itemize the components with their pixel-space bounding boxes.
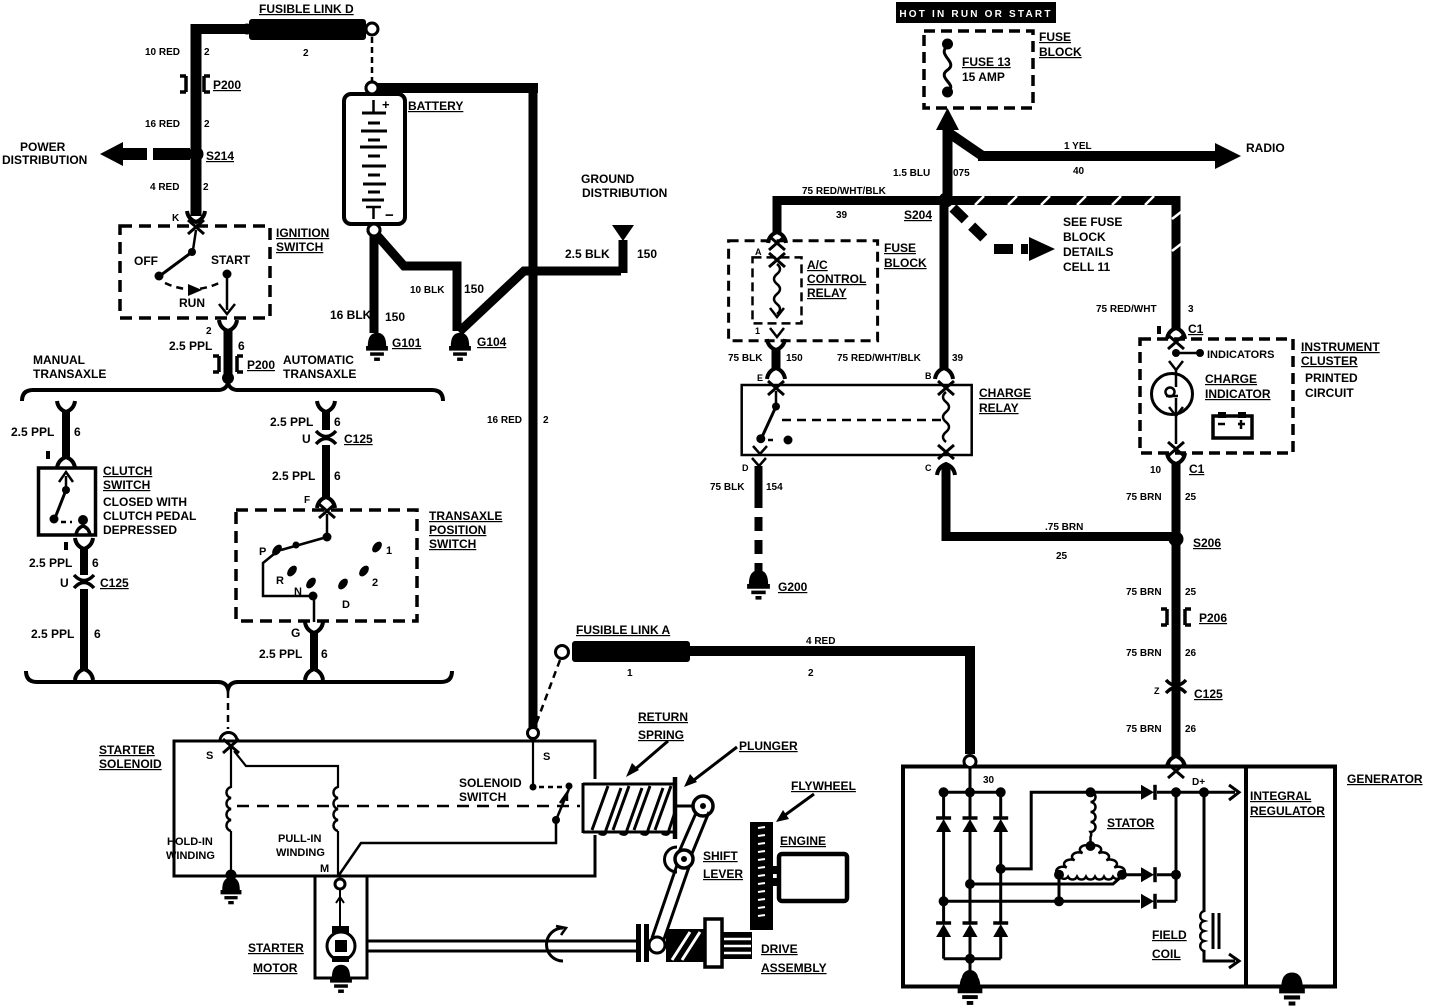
svg-text:COIL: COIL	[1152, 947, 1181, 961]
svg-text:P206: P206	[1199, 611, 1227, 625]
shift lever lower arm	[652, 865, 677, 938]
svg-text:FUSE: FUSE	[884, 241, 916, 255]
battery terminal circles (top of wires)	[366, 82, 378, 94]
rectifier bottom bus	[942, 937, 945, 959]
svg-text:REGULATOR: REGULATOR	[1250, 804, 1325, 818]
svg-text:BLOCK: BLOCK	[1039, 45, 1082, 59]
svg-text:30: 30	[983, 775, 995, 786]
svg-text:2: 2	[543, 415, 549, 426]
flywheel pointer	[781, 794, 814, 818]
plunger cylinder	[582, 783, 585, 833]
battery cells	[360, 100, 387, 219]
svg-text:A/C: A/C	[807, 258, 828, 272]
svg-text:CLUTCH: CLUTCH	[103, 464, 152, 478]
shift lever top pivot	[693, 796, 713, 816]
svg-text:LEVER: LEVER	[703, 867, 743, 881]
solenoid switch moving contact	[556, 789, 569, 820]
svg-text:2.5 BLK: 2.5 BLK	[565, 247, 610, 261]
svg-text:1 YEL: 1 YEL	[1064, 141, 1092, 152]
diode column drops	[942, 792, 945, 819]
svg-text:3: 3	[1188, 304, 1194, 315]
svg-text:6: 6	[238, 339, 245, 353]
svg-text:C1: C1	[1189, 462, 1205, 476]
svg-text:HOLD-IN: HOLD-IN	[167, 836, 213, 848]
svg-text:2.5 PPL: 2.5 PPL	[270, 415, 313, 429]
svg-text:CLUSTER: CLUSTER	[1301, 354, 1358, 368]
svg-text:4 RED: 4 RED	[150, 182, 179, 193]
dashed wire from brace to starter solenoid	[227, 691, 230, 729]
HOT IN RUN OR START banner	[896, 2, 1056, 23]
shift lever upper arm	[679, 813, 696, 852]
svg-text:150: 150	[464, 282, 484, 296]
ground distribution arrow	[612, 225, 634, 241]
svg-text:E: E	[757, 373, 763, 383]
svg-text:75 BRN: 75 BRN	[1126, 648, 1162, 659]
wire from P to N	[263, 554, 311, 596]
svg-text:6: 6	[94, 627, 101, 641]
svg-text:26: 26	[1185, 648, 1197, 659]
junction dot above transaxle brace	[222, 372, 234, 384]
svg-text:C: C	[925, 463, 932, 473]
svg-text:START: START	[211, 253, 251, 267]
svg-text:2: 2	[204, 47, 210, 58]
pull-in winding to M terminal	[337, 831, 339, 875]
terminal 30 circle	[964, 756, 976, 768]
svg-text:75 BRN: 75 BRN	[1126, 724, 1162, 735]
svg-text:ASSEMBLY: ASSEMBLY	[761, 961, 827, 975]
svg-text:1.5 BLU: 1.5 BLU	[893, 168, 930, 179]
wire A/C relay to charge relay E	[767, 339, 785, 350]
plunger pointer	[690, 747, 737, 783]
solenoid actuator dashed link	[237, 805, 580, 808]
return spring coils	[592, 786, 675, 834]
A/C control relay inner box	[753, 257, 802, 323]
svg-text:2.5 PPL: 2.5 PPL	[169, 339, 212, 353]
svg-text:25: 25	[1185, 492, 1197, 503]
svg-text:2: 2	[204, 119, 210, 130]
ignition switch box	[120, 226, 270, 318]
svg-text:OFF: OFF	[134, 254, 158, 268]
svg-text:WINDING: WINDING	[166, 850, 215, 862]
bottom brace	[26, 671, 452, 689]
svg-text:CLUTCH PEDAL: CLUTCH PEDAL	[103, 509, 196, 523]
svg-text:A: A	[755, 247, 762, 257]
svg-text:16 RED: 16 RED	[145, 119, 180, 130]
dashed travel arc with RUN arrow	[165, 282, 221, 289]
svg-text:2.5 PPL: 2.5 PPL	[31, 627, 74, 641]
ignition switch pivot	[193, 230, 196, 250]
svg-text:26: 26	[1185, 724, 1197, 735]
svg-text:K: K	[172, 213, 180, 224]
svg-text:S204: S204	[904, 208, 932, 222]
svg-text:CLOSED WITH: CLOSED WITH	[103, 495, 187, 509]
svg-text:IGNITION: IGNITION	[276, 226, 329, 240]
svg-text:M: M	[320, 863, 329, 875]
svg-text:RADIO: RADIO	[1246, 141, 1285, 155]
svg-text:POWER: POWER	[20, 140, 66, 154]
phase C route	[1058, 875, 1061, 902]
charge relay contact	[768, 381, 784, 395]
svg-text:D: D	[342, 599, 350, 611]
svg-text:MOTOR: MOTOR	[253, 961, 298, 975]
svg-text:16 BLK: 16 BLK	[330, 308, 372, 322]
svg-text:CELL 11: CELL 11	[1063, 260, 1110, 274]
starter motor enclosure	[315, 876, 367, 978]
ground wire 16 BLK from battery	[370, 235, 379, 333]
trio output line	[1175, 792, 1178, 901]
dashed wire from link A to solenoid S	[536, 660, 560, 724]
starter solenoid box	[174, 741, 595, 876]
svg-text:SWITCH: SWITCH	[459, 790, 506, 804]
radio feed branch	[946, 131, 984, 157]
svg-text:25: 25	[1056, 551, 1068, 562]
return spring pointer	[632, 741, 668, 772]
wire D to G200	[755, 466, 763, 494]
svg-text:CONTROL: CONTROL	[807, 272, 866, 286]
terminal tick above clutch switch	[46, 451, 50, 459]
wire 2.5 PPL below switch	[310, 632, 318, 670]
svg-text:2.5 PPL: 2.5 PPL	[29, 556, 72, 570]
field to regulator	[1204, 950, 1235, 961]
svg-text:TRANSAXLE: TRANSAXLE	[429, 509, 502, 523]
svg-text:MANUAL: MANUAL	[33, 353, 85, 367]
svg-text:39: 39	[952, 353, 964, 364]
svg-text:G: G	[291, 626, 300, 640]
svg-text:+: +	[382, 97, 390, 112]
battery top terminal circle	[366, 82, 378, 94]
svg-text:150: 150	[786, 353, 803, 364]
motor feed wire	[339, 889, 341, 928]
terminal tick below clutch switch	[64, 542, 68, 550]
svg-text:G104: G104	[477, 335, 507, 349]
svg-text:BLOCK: BLOCK	[884, 256, 927, 270]
svg-text:R: R	[276, 575, 284, 587]
fusible link A body	[572, 641, 690, 662]
power distribution arrow	[100, 142, 123, 166]
entry arrow into switch	[319, 504, 335, 518]
svg-text:2: 2	[303, 48, 309, 59]
connector P206	[1161, 609, 1191, 625]
wire C to S206	[946, 466, 1172, 537]
4 RED wire to generator	[690, 651, 970, 754]
svg-text:150: 150	[385, 310, 405, 324]
svg-text:WINDING: WINDING	[276, 847, 325, 859]
svg-text:DEPRESSED: DEPRESSED	[103, 523, 177, 537]
main feed wire 10 RED vertical	[191, 24, 202, 216]
arrow down to lamp	[1169, 361, 1183, 370]
svg-text:FUSIBLE LINK D: FUSIBLE LINK D	[259, 2, 354, 16]
junction N to output	[309, 592, 318, 601]
svg-text:ENGINE: ENGINE	[780, 834, 826, 848]
svg-text:1: 1	[755, 326, 760, 336]
svg-text:C125: C125	[344, 432, 373, 446]
svg-text:PRINTED: PRINTED	[1305, 371, 1358, 385]
svg-text:10 RED: 10 RED	[145, 47, 180, 58]
entry of 75 BRN at D+	[1168, 764, 1184, 778]
svg-text:D: D	[742, 463, 749, 473]
svg-text:15 AMP: 15 AMP	[962, 70, 1005, 84]
terminal S right circle	[528, 728, 539, 739]
ground below starter motor	[330, 965, 352, 991]
svg-text:16 RED: 16 RED	[487, 415, 522, 426]
fusible link D body	[249, 19, 366, 40]
engine block	[779, 854, 847, 901]
svg-text:2: 2	[372, 577, 378, 589]
contact 2	[357, 564, 371, 578]
svg-text:BLOCK: BLOCK	[1063, 230, 1106, 244]
svg-text:C125: C125	[1194, 687, 1223, 701]
engine mount nubs	[772, 866, 780, 874]
svg-text:2: 2	[203, 182, 209, 193]
svg-text:STARTER: STARTER	[99, 743, 155, 757]
stator delta winding	[1056, 845, 1090, 875]
hold-in winding to ground	[230, 831, 232, 876]
svg-text:FUSIBLE LINK A: FUSIBLE LINK A	[576, 623, 671, 637]
svg-text:SHIFT: SHIFT	[703, 849, 738, 863]
svg-text:FUSE 13: FUSE 13	[962, 55, 1011, 69]
generator box	[903, 767, 1246, 987]
battery positive feed wire to 16 RED drop	[377, 83, 538, 93]
svg-text:FLYWHEEL: FLYWHEEL	[791, 779, 856, 793]
wire 2.5 PPL to bottom brace	[80, 589, 88, 670]
pivot bracket arc	[665, 847, 678, 872]
svg-text:75 RED/WHT: 75 RED/WHT	[1096, 304, 1157, 315]
svg-text:SOLENOID: SOLENOID	[459, 776, 522, 790]
connector P200 lower	[213, 356, 243, 372]
starter shaft	[367, 940, 640, 943]
fuse 13 symbol	[942, 39, 953, 50]
svg-text:2: 2	[206, 326, 212, 337]
svg-text:6: 6	[334, 415, 341, 429]
svg-text:RUN: RUN	[179, 296, 205, 310]
svg-text:6: 6	[92, 556, 99, 570]
ground G200	[747, 570, 770, 598]
svg-text:CHARGE: CHARGE	[1205, 372, 1257, 386]
svg-text:10 BLK: 10 BLK	[410, 285, 445, 296]
integral regulator box	[1246, 767, 1335, 987]
2.5 BLK wire from ground distribution	[459, 271, 621, 332]
svg-text:RETURN: RETURN	[638, 710, 688, 724]
svg-text:75 BLK: 75 BLK	[710, 482, 745, 493]
svg-text:B: B	[925, 371, 932, 381]
battery feed drop to bus	[969, 767, 972, 792]
svg-text:C125: C125	[100, 576, 129, 590]
wire to fusible link D	[196, 24, 250, 34]
battery case	[344, 94, 405, 224]
svg-text:SEE FUSE: SEE FUSE	[1063, 215, 1122, 229]
open terminal circle right of fusible link D	[366, 23, 378, 35]
svg-text:6: 6	[334, 469, 341, 483]
svg-text:C1: C1	[1188, 322, 1204, 336]
field coil	[1200, 911, 1204, 951]
svg-text:PLUNGER: PLUNGER	[739, 739, 798, 753]
fuse block outer box	[729, 241, 878, 341]
A/C relay coil	[774, 264, 780, 314]
dashed wire from link D to battery	[371, 37, 374, 81]
wire 2.5 PPL to switch	[322, 445, 330, 498]
svg-text:1: 1	[627, 668, 633, 679]
svg-text:2.5 PPL: 2.5 PPL	[259, 647, 302, 661]
svg-text:GROUND: GROUND	[581, 172, 635, 186]
svg-text:1: 1	[386, 545, 392, 557]
16 RED vertical wire to starter solenoid	[529, 88, 538, 728]
svg-text:STATOR: STATOR	[1107, 816, 1155, 830]
connector C1 bottom	[1167, 453, 1185, 464]
svg-text:2.5 PPL: 2.5 PPL	[11, 425, 54, 439]
plunger to shift lever link	[677, 805, 694, 808]
solenoid switch fixed contact	[532, 739, 534, 785]
svg-text:39: 39	[836, 210, 848, 221]
negative diodes	[942, 901, 945, 924]
svg-text:SWITCH: SWITCH	[103, 478, 150, 492]
wire to generator with splice S206	[1172, 463, 1181, 757]
svg-text:6: 6	[321, 647, 328, 661]
dashed arrow SEE FUSE BLOCK	[953, 208, 989, 243]
svg-text:D+: D+	[1192, 777, 1205, 788]
svg-text:SWITCH: SWITCH	[429, 537, 476, 551]
automatic branch wire 2.5 PPL upper	[317, 401, 335, 412]
svg-text:FUSE: FUSE	[1039, 30, 1071, 44]
drive assembly	[636, 924, 641, 962]
svg-text:Z: Z	[1154, 686, 1160, 696]
svg-text:DETAILS: DETAILS	[1063, 245, 1113, 259]
svg-text:PULL-IN: PULL-IN	[278, 833, 321, 845]
svg-text:SOLENOID: SOLENOID	[99, 757, 162, 771]
feed wire from fuse 13	[936, 108, 959, 130]
svg-text:DISTRIBUTION: DISTRIBUTION	[2, 153, 87, 167]
wire from S204 to charge relay B	[940, 205, 949, 369]
wire S204 to A/C relay	[777, 201, 948, 234]
svg-text:U: U	[302, 432, 311, 446]
contact 1	[370, 540, 384, 554]
contact R	[285, 564, 299, 578]
svg-text:P: P	[259, 546, 266, 558]
connector C125 right	[1166, 680, 1186, 693]
fuse block box	[924, 31, 1033, 108]
svg-text:S214: S214	[206, 149, 234, 163]
svg-text:G200: G200	[778, 580, 808, 594]
svg-text:−: −	[385, 207, 394, 224]
svg-text:2.5 PPL: 2.5 PPL	[272, 469, 315, 483]
pull-in winding coil	[333, 787, 338, 831]
svg-text:HOT IN RUN OR START: HOT IN RUN OR START	[899, 9, 1052, 20]
ground G104	[449, 333, 471, 359]
svg-text:INSTRUMENT: INSTRUMENT	[1301, 340, 1380, 354]
svg-text:GENERATOR: GENERATOR	[1347, 772, 1423, 786]
starter motor symbol	[332, 926, 349, 933]
positive diodes	[936, 818, 951, 832]
phase A route to stator top	[1001, 792, 1088, 869]
wire 2.5 PPL below clutch switch	[75, 538, 93, 549]
wire 2.5 PPL below ignition switch	[224, 330, 233, 382]
diode trio bottom	[1141, 894, 1155, 909]
svg-text:75 BRN: 75 BRN	[1126, 492, 1162, 503]
splice S214	[189, 147, 204, 162]
battery bottom terminal circle	[368, 224, 380, 236]
svg-text:154: 154	[766, 482, 783, 493]
M terminal circle	[335, 879, 345, 889]
charge relay coil	[938, 381, 954, 395]
junction dot at fusible link D	[242, 24, 253, 35]
svg-text:U: U	[60, 576, 69, 590]
wiper to P contact	[281, 537, 327, 550]
clutch switch box	[39, 468, 96, 535]
svg-text:N: N	[294, 586, 302, 598]
svg-text:40: 40	[1073, 166, 1085, 177]
transaxle position switch box	[236, 510, 417, 621]
svg-text:S206: S206	[1193, 536, 1221, 550]
svg-text:75 RED/WHT/BLK: 75 RED/WHT/BLK	[802, 186, 887, 197]
ground wire 10 BLK from battery	[375, 233, 457, 331]
svg-text:75 BLK: 75 BLK	[728, 353, 763, 364]
svg-text:TRANSAXLE: TRANSAXLE	[283, 367, 356, 381]
svg-text:BATTERY: BATTERY	[408, 99, 463, 113]
clutch switch contact arm	[59, 472, 73, 482]
diode trio middle	[1122, 873, 1141, 876]
svg-text:TRANSAXLE: TRANSAXLE	[33, 367, 106, 381]
svg-text:STARTER: STARTER	[248, 941, 304, 955]
svg-text:DISTRIBUTION: DISTRIBUTION	[582, 186, 667, 200]
svg-text:FIELD: FIELD	[1152, 928, 1187, 942]
fusible link A terminal circle	[556, 646, 569, 659]
svg-text:S: S	[543, 751, 550, 763]
contact D	[336, 577, 350, 591]
manual branch wire 2.5 PPL upper	[57, 401, 75, 412]
field coil tap	[1203, 792, 1206, 912]
ground G101	[366, 333, 388, 359]
svg-text:INDICATOR: INDICATOR	[1205, 387, 1271, 401]
svg-text:CHARGE: CHARGE	[979, 386, 1031, 400]
phase lines below positive diodes	[942, 832, 945, 901]
START contact	[223, 270, 232, 279]
svg-text:F: F	[304, 495, 310, 506]
stator feed coil	[1091, 792, 1096, 842]
arrow from START contact down	[226, 277, 229, 310]
svg-text:INTEGRAL: INTEGRAL	[1250, 789, 1311, 803]
splice S204	[939, 193, 954, 208]
regulator ground	[1279, 972, 1305, 1003]
indicators tap	[1172, 349, 1180, 357]
contact P	[270, 543, 284, 557]
top brace	[22, 383, 443, 401]
svg-text:75 RED/WHT/BLK: 75 RED/WHT/BLK	[837, 353, 922, 364]
svg-text:RELAY: RELAY	[807, 286, 847, 300]
svg-text:P200: P200	[213, 78, 241, 92]
flywheel	[750, 822, 773, 930]
svg-text:SWITCH: SWITCH	[276, 240, 323, 254]
svg-text:P200: P200	[247, 358, 275, 372]
wire from S to windings	[230, 748, 232, 788]
svg-text:.75 BRN: .75 BRN	[1045, 522, 1083, 533]
svg-text:POSITION: POSITION	[429, 523, 486, 537]
svg-text:150: 150	[637, 247, 657, 261]
hold-in winding coil	[226, 787, 231, 831]
svg-text:INDICATORS: INDICATORS	[1207, 349, 1274, 361]
hop arc at solenoid box	[220, 733, 237, 742]
svg-text:10: 10	[1150, 465, 1162, 476]
rectifier top bus	[942, 791, 1001, 794]
charge relay box	[742, 385, 972, 455]
connector C1 top	[1167, 328, 1185, 339]
svg-text:AUTOMATIC: AUTOMATIC	[283, 353, 354, 367]
phase B route	[970, 876, 1122, 884]
svg-text:075: 075	[953, 168, 970, 179]
svg-text:6: 6	[74, 425, 81, 439]
diode trio top	[1091, 791, 1142, 794]
instrument cluster box	[1140, 339, 1293, 453]
generator ground	[969, 959, 972, 974]
charge indicator lamp	[1152, 374, 1193, 415]
